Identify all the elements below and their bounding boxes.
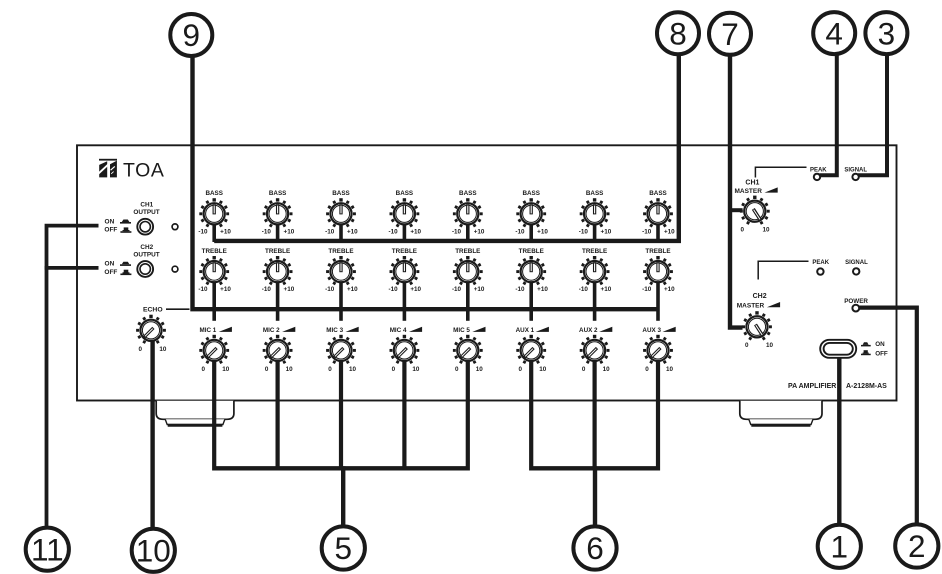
svg-text:MIC 4: MIC 4 [390, 327, 407, 334]
svg-text:PA AMPLIFIER: PA AMPLIFIER [788, 383, 836, 390]
knob ECHO [136, 307, 167, 354]
wire: TREBLE 1 knob shaft through bus [212, 282, 216, 321]
svg-text:0: 0 [518, 366, 522, 373]
svg-text:OFF: OFF [104, 227, 117, 234]
svg-text:+10: +10 [474, 286, 485, 293]
svg-text:10: 10 [603, 366, 611, 373]
svg-text:-10: -10 [515, 286, 525, 293]
wire: MIC 1 knob shaft to bus [212, 361, 216, 471]
svg-text:-10: -10 [452, 286, 462, 293]
wire: TREBLE 5 knob shaft through bus [466, 282, 470, 321]
wire: callout 10 to ECHO knob [150, 339, 154, 529]
callout 10 [132, 529, 175, 572]
LED POWER [852, 305, 859, 312]
svg-text:-10: -10 [579, 286, 589, 293]
wire: MIC bus to callout 5 [214, 466, 468, 470]
svg-text:BASS: BASS [522, 190, 540, 197]
svg-text:7: 7 [721, 16, 739, 52]
LED CH1 PEAK [814, 174, 820, 180]
svg-text:+10: +10 [410, 229, 421, 236]
pointer line: CH2 peak/signal bracket [758, 261, 808, 279]
svg-text:+10: +10 [284, 229, 295, 236]
wire: callout 11 riser with branches to CH1/CH2 ON-OFF [47, 226, 99, 528]
icon: button released (power ON) [861, 342, 871, 346]
wire: MIC 3 knob shaft to bus [339, 361, 343, 471]
svg-text:TREBLE: TREBLE [265, 248, 290, 255]
svg-text:-10: -10 [325, 286, 335, 293]
callout 11 [26, 528, 69, 571]
knob BASS 5 [452, 190, 485, 236]
icon: button released (CH2 ON) [120, 262, 131, 266]
icon: button pressed (CH2 OFF) [120, 270, 131, 275]
wire: BASS 5 knob shaft to bus [466, 225, 470, 243]
wire: callout 4 to CH1 PEAK LED [820, 53, 837, 175]
svg-text:10: 10 [286, 366, 294, 373]
svg-text:8: 8 [669, 15, 687, 51]
svg-text:0: 0 [328, 366, 332, 373]
knob MIC 2 [263, 327, 296, 373]
svg-text:10: 10 [159, 346, 167, 353]
svg-text:+10: +10 [664, 229, 675, 236]
svg-text:+10: +10 [284, 286, 295, 293]
pointer line: CH1 peak/signal bracket [755, 167, 806, 177]
svg-text:TREBLE: TREBLE [519, 248, 544, 255]
knob TREBLE 4 [389, 248, 422, 293]
svg-text:AUX 2: AUX 2 [579, 327, 598, 334]
svg-text:-10: -10 [515, 229, 525, 236]
svg-text:-10: -10 [262, 286, 272, 293]
knob BASS 3 [325, 190, 358, 236]
svg-text:CH1: CH1 [140, 202, 153, 209]
svg-text:OFF: OFF [104, 269, 117, 276]
knob TREBLE 2 [262, 248, 295, 293]
svg-text:TOA: TOA [123, 160, 165, 182]
svg-text:BASS: BASS [649, 190, 667, 197]
LED CH1 SIGNAL [852, 174, 858, 180]
icon: button released (CH1 ON) [120, 220, 131, 224]
wire: TREBLE 7 knob shaft through bus [593, 282, 597, 321]
knob AUX 1 [516, 327, 549, 373]
svg-text:+10: +10 [537, 286, 548, 293]
svg-text:-10: -10 [198, 286, 208, 293]
callout 1 [818, 525, 861, 568]
wire: TREBLE 6 knob shaft through bus [529, 282, 533, 321]
output jack CH1 [137, 219, 153, 235]
wire: AUX 1 knob shaft to bus [529, 361, 533, 471]
svg-text:10: 10 [349, 366, 357, 373]
svg-text:+10: +10 [347, 229, 358, 236]
svg-text:BASS: BASS [459, 190, 477, 197]
svg-text:MIC 2: MIC 2 [263, 327, 280, 334]
svg-text:10: 10 [476, 366, 484, 373]
wire: MIC 5 knob shaft to bus [466, 361, 470, 471]
svg-text:10: 10 [762, 226, 770, 233]
svg-text:BASS: BASS [332, 190, 350, 197]
svg-text:10: 10 [136, 533, 171, 569]
svg-text:PEAK: PEAK [810, 167, 827, 173]
wire: MIC 4 knob shaft to bus [402, 361, 406, 471]
knob TREBLE 7 [579, 248, 612, 293]
svg-text:+10: +10 [601, 229, 612, 236]
svg-text:+10: +10 [220, 286, 231, 293]
svg-text:2: 2 [908, 528, 926, 564]
svg-text:+10: +10 [220, 229, 231, 236]
wire: TREBLE 4 knob shaft through bus [403, 282, 407, 321]
svg-text:-10: -10 [325, 229, 335, 236]
knob AUX 3 [642, 327, 675, 373]
wire: callout 9 riser joining TREBLE bus [193, 55, 659, 310]
knob MIC 5 [453, 327, 486, 373]
svg-text:+10: +10 [410, 286, 421, 293]
svg-text:AUX 1: AUX 1 [516, 327, 535, 334]
icon: button pressed (CH1 OFF) [120, 227, 131, 232]
callout 6 [573, 526, 616, 569]
svg-text:3: 3 [878, 15, 896, 51]
svg-text:-10: -10 [579, 229, 589, 236]
svg-text:-10: -10 [198, 229, 208, 236]
callout 7 [709, 13, 751, 55]
svg-text:A-2128M-AS: A-2128M-AS [846, 383, 887, 390]
svg-text:+10: +10 [537, 229, 548, 236]
TOA logo mark [98, 159, 117, 178]
svg-text:11: 11 [31, 531, 64, 567]
LED CH2 SIGNAL [853, 268, 859, 274]
svg-text:ON: ON [105, 261, 115, 268]
svg-text:+10: +10 [347, 286, 358, 293]
svg-text:4: 4 [825, 15, 843, 51]
svg-text:6: 6 [586, 530, 604, 566]
callout 2 [895, 524, 938, 567]
svg-text:10: 10 [766, 342, 774, 349]
wire: TREBLE 8 knob shaft through bus [656, 282, 660, 321]
svg-text:5: 5 [335, 530, 353, 566]
svg-text:BASS: BASS [205, 190, 223, 197]
knob MIC 4 [390, 327, 423, 373]
svg-text:1: 1 [831, 529, 849, 565]
svg-text:CH2: CH2 [140, 244, 153, 251]
svg-text:10: 10 [666, 366, 674, 373]
callout 9 [170, 14, 212, 56]
svg-text:MASTER: MASTER [737, 303, 765, 310]
svg-text:OUTPUT: OUTPUT [133, 209, 159, 216]
pointer line: ECHO label dash [166, 308, 190, 310]
wire: AUX bus to callout 6 [531, 466, 658, 470]
svg-text:TREBLE: TREBLE [328, 248, 353, 255]
wire: BASS 8 knob shaft to bus [656, 225, 660, 243]
svg-text:TREBLE: TREBLE [645, 248, 670, 255]
callout 4 [813, 12, 855, 54]
svg-text:OUTPUT: OUTPUT [133, 251, 159, 258]
wire: TREBLE 3 knob shaft through bus [339, 282, 343, 321]
LED CH2 PEAK [817, 268, 823, 274]
svg-text:9: 9 [183, 17, 201, 53]
svg-text:AUX 3: AUX 3 [642, 327, 661, 334]
knob BASS 7 [579, 190, 612, 236]
callout 5 [322, 526, 365, 569]
svg-text:+10: +10 [664, 286, 675, 293]
callout 3 [865, 12, 907, 54]
knob MIC 1 [199, 327, 232, 373]
svg-text:TREBLE: TREBLE [202, 248, 227, 255]
svg-text:+10: +10 [474, 229, 485, 236]
knob BASS 2 [262, 190, 295, 236]
svg-text:MIC 3: MIC 3 [326, 327, 343, 334]
svg-text:0: 0 [455, 366, 459, 373]
svg-text:0: 0 [582, 366, 586, 373]
knob TREBLE 6 [515, 248, 548, 293]
svg-text:SIGNAL: SIGNAL [845, 260, 868, 266]
wire: BASS 4 knob shaft to bus [403, 225, 407, 243]
knob AUX 2 [579, 327, 612, 373]
knob TREBLE 5 [452, 248, 485, 293]
indicator hole (CH2) [172, 266, 178, 272]
wire: callout 1 to power switch [837, 357, 841, 525]
wire: callout 2 to POWER LED [859, 308, 917, 524]
knob BASS 8 [642, 190, 675, 236]
right foot under panel [740, 401, 822, 420]
knob BASS 4 [389, 190, 422, 236]
indicator hole (CH1) [172, 224, 178, 230]
svg-text:MASTER: MASTER [734, 188, 762, 195]
wire: AUX 2 knob shaft to bus [592, 361, 596, 471]
svg-text:TREBLE: TREBLE [582, 248, 607, 255]
svg-text:TREBLE: TREBLE [455, 248, 480, 255]
wire: BASS 3 knob shaft to bus [339, 225, 343, 243]
svg-text:-10: -10 [642, 286, 652, 293]
svg-text:MIC 5: MIC 5 [453, 327, 470, 334]
svg-text:PEAK: PEAK [812, 260, 829, 266]
callout 8 [657, 12, 699, 54]
svg-text:OFF: OFF [875, 351, 888, 358]
svg-text:SIGNAL: SIGNAL [844, 167, 867, 173]
svg-text:0: 0 [265, 366, 269, 373]
wire: callout 7 riser with stubs to CH1/CH2 MASTER [730, 55, 743, 328]
svg-text:TREBLE: TREBLE [392, 248, 417, 255]
amplifier front panel outline [77, 145, 897, 400]
svg-text:ON: ON [875, 341, 885, 348]
svg-text:CH1: CH1 [745, 180, 759, 187]
wire: BASS 2 knob shaft to bus [276, 225, 280, 243]
knob TREBLE 1 [198, 248, 231, 293]
wire: BASS 1 knob shaft to bus [212, 225, 216, 243]
svg-text:0: 0 [740, 226, 744, 233]
wire: BASS 7 knob shaft to bus [593, 225, 597, 243]
wire: MIC 2 knob shaft to bus [276, 361, 280, 471]
knob TREBLE 8 [642, 248, 675, 293]
svg-text:10: 10 [412, 366, 420, 373]
knob MIC 3 [326, 327, 359, 373]
svg-text:-10: -10 [389, 286, 399, 293]
svg-text:CH2: CH2 [753, 293, 767, 300]
wire: AUX 3 knob shaft to bus [656, 361, 660, 471]
left foot under panel [156, 401, 234, 420]
svg-text:10: 10 [539, 366, 547, 373]
svg-text:-10: -10 [452, 229, 462, 236]
power switch rocker [820, 340, 856, 358]
svg-text:-10: -10 [262, 229, 272, 236]
knob BASS 6 [515, 190, 548, 236]
knob BASS 1 [198, 190, 231, 236]
svg-text:ECHO: ECHO [143, 307, 163, 314]
knob CH1 MASTER [734, 180, 777, 234]
wire: TREBLE 2 knob shaft through bus [276, 282, 280, 321]
svg-text:0: 0 [138, 346, 142, 353]
wire: BASS bus rising to callout 8 [214, 53, 679, 241]
svg-text:+10: +10 [601, 286, 612, 293]
svg-text:0: 0 [645, 366, 649, 373]
svg-text:-10: -10 [642, 229, 652, 236]
knob CH2 MASTER [737, 293, 780, 349]
svg-text:0: 0 [392, 366, 396, 373]
svg-text:0: 0 [201, 366, 205, 373]
knob TREBLE 3 [325, 248, 358, 293]
svg-text:BASS: BASS [396, 190, 414, 197]
icon: button pressed (power OFF) [861, 350, 871, 355]
svg-text:0: 0 [745, 342, 749, 349]
svg-text:MIC 1: MIC 1 [200, 327, 217, 334]
svg-text:10: 10 [222, 366, 230, 373]
wire: BASS 6 knob shaft to bus [529, 225, 533, 243]
svg-text:ON: ON [105, 218, 115, 225]
output jack CH2 [137, 261, 153, 277]
svg-text:BASS: BASS [586, 190, 604, 197]
svg-text:BASS: BASS [269, 190, 287, 197]
svg-text:-10: -10 [389, 229, 399, 236]
wire: callout 3 to CH1 SIGNAL LED [858, 53, 887, 175]
